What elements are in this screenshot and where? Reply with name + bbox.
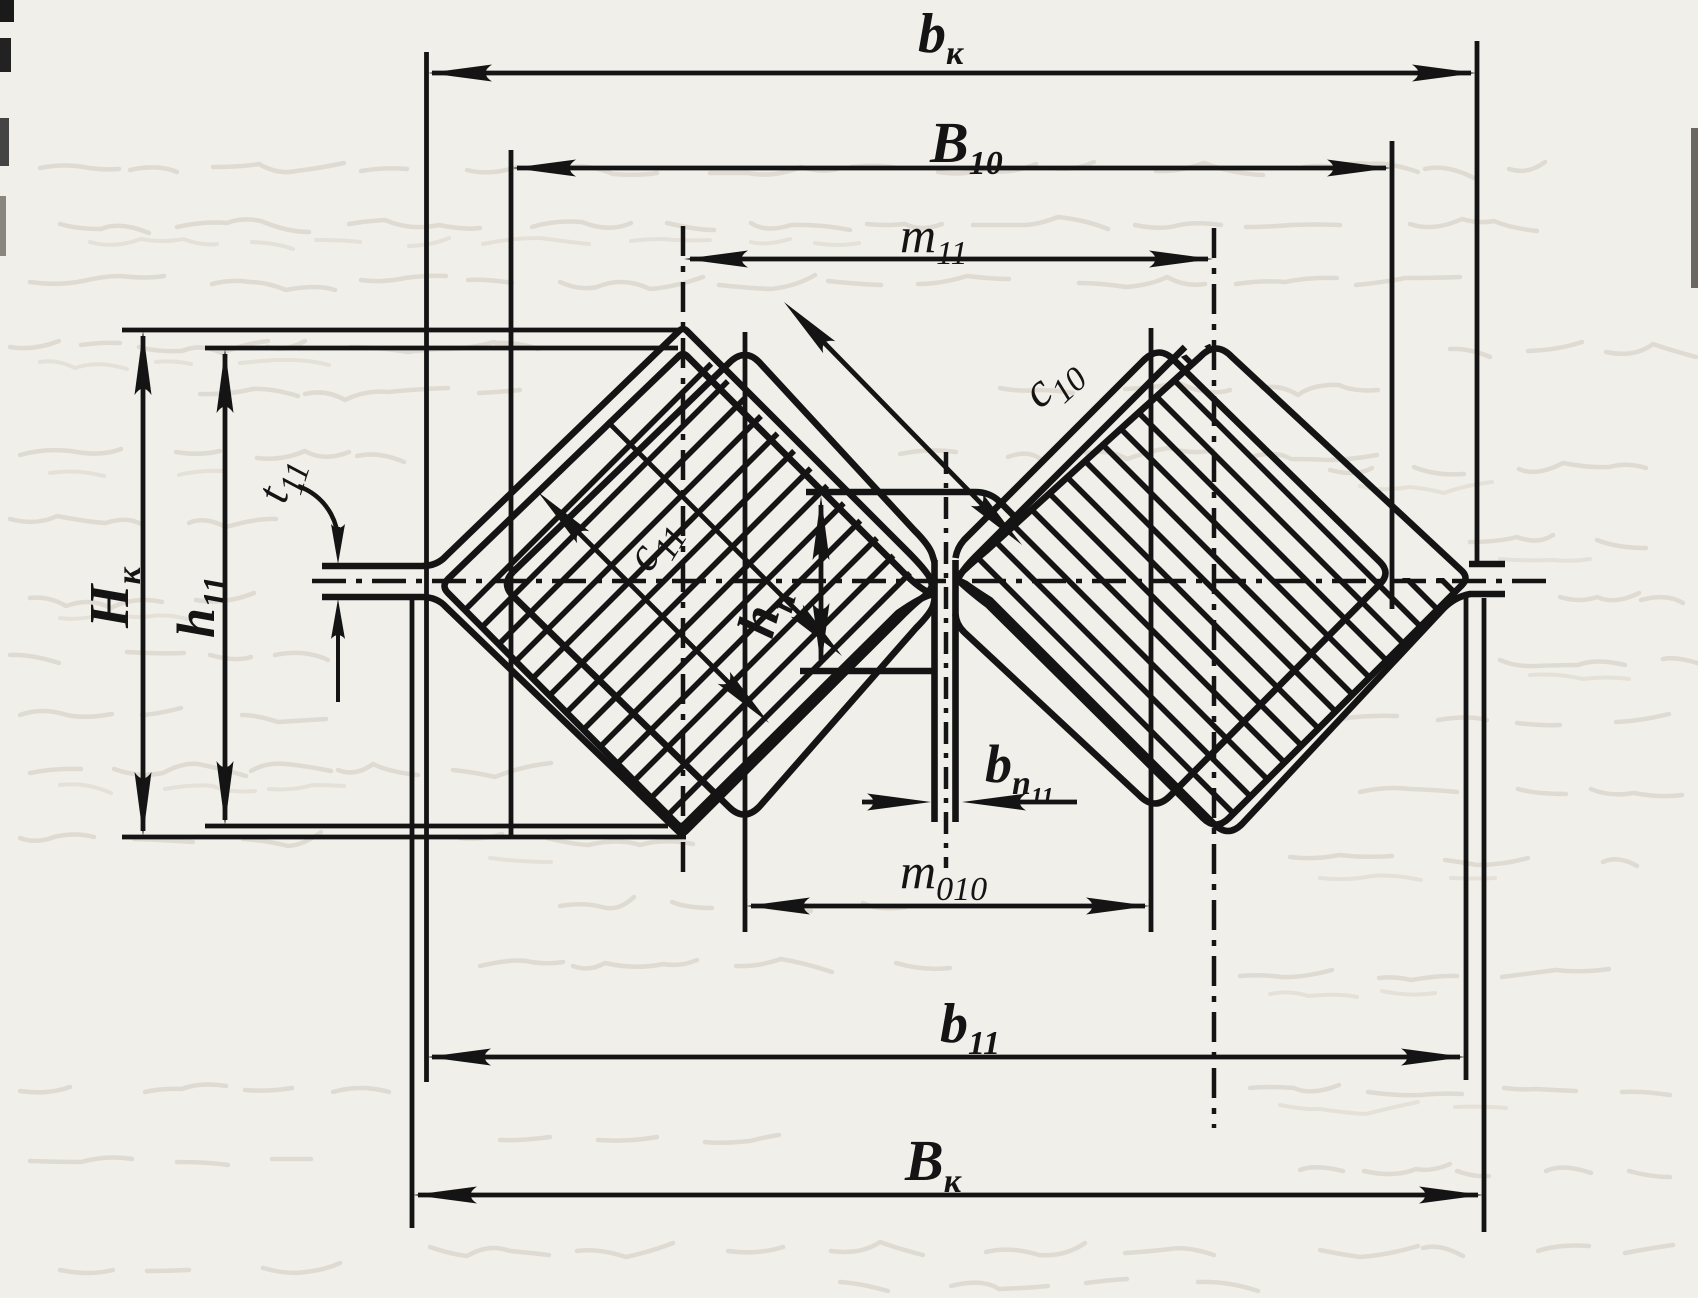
label m_010 [900,843,987,908]
hatching of right bar section [690,270,1698,900]
dimension b_11 extension line right [1464,593,1469,1080]
label H_k [79,566,148,629]
label b_k (top) [918,3,964,72]
label c_10 [1012,342,1095,425]
dimension H_k extension line bottom [122,835,686,840]
neck axis centerline x=946 [944,452,949,868]
label h_11 [166,576,234,638]
dimension B_10 line with arrows [512,160,1391,177]
neck right lip (vertical parting line) [952,560,959,822]
neck left lip (vertical parting line of turned groove) [931,560,938,822]
dimension t_11 upper arrow [331,524,345,564]
lower relief line of turned groove [800,668,932,675]
upper relief line of turned groove [806,492,1020,522]
dimension m_010 extension line left [743,332,748,932]
dimension c_11 diagonal double arrow [538,492,769,723]
turned groove 10 contour on left scene (contour A) [507,355,935,815]
dimension t_11 leader curve [298,486,338,541]
left pass axis centerline x=683 [681,226,686,872]
dimension b_p11 line right part with arrow [962,794,1077,811]
dimension H_k extension line top [122,328,681,333]
dimension h_11 extension line bottom [205,824,668,829]
groove 11 contour on right scene (contour B) [956,353,1386,804]
dimension h_11 line with arrows [217,349,234,825]
label B_k [904,1128,962,1200]
dimension B_k extension line right [1482,598,1487,1232]
groove of pass 10 lower contour (right scene) [956,579,1471,831]
dimension B_k line with arrows [413,1187,1483,1204]
bar section in pass 11 (hatched diamond outline) [445,354,935,826]
groove 11 lower contour (lower lip and bottom apex) [322,586,932,833]
right parting lower lip [1469,591,1505,598]
label b_11 [940,993,1000,1062]
label m_11 [900,207,968,272]
dimension b_k line with arrows [428,65,1476,82]
dimension m_010 extension line right [1149,328,1154,932]
dimension B_10 extension line right [1390,141,1395,609]
label t_11 [246,450,318,511]
horizontal roll parting centerline [312,579,1548,584]
label h_p [726,580,804,645]
second diagonal arrow across left groove [607,421,842,656]
groove 11 upper contour (upper lip and top apex) [322,329,932,586]
dimension b_k extension line left [424,52,429,1082]
dimension b_k extension line right [1475,41,1480,566]
dimension B_k extension line left [410,597,415,1228]
dimension m_010 line with arrows [746,898,1150,915]
right parting upper lip [1469,561,1505,568]
hatching of left bar section [175,270,1213,900]
dimension c_10 diagonal double arrow [784,302,1022,545]
dimension m_11 line with arrows [684,251,1213,268]
scan edge artifacts [0,0,1698,288]
label B_10 [929,110,1003,182]
label b_p11 [985,734,1054,810]
dimension h_11 extension line top [205,346,678,351]
dimension B_10 extension line left [509,150,514,838]
dimension b_11 line with arrows [427,1049,1465,1066]
groove 10 inner edge parallel to bar upper-left side [956,347,1186,582]
dimension b_p11 line left part with arrow [862,794,931,811]
label c_11 [614,507,695,585]
right pass axis centerline x=1214 [1212,228,1217,1128]
dimension H_k line with arrows [135,331,152,836]
dimension h_p line with arrows [813,496,830,667]
dimension t_11 lower arrow [331,599,345,702]
bar section in pass 10 (hatched diamond outline) [956,349,1466,825]
